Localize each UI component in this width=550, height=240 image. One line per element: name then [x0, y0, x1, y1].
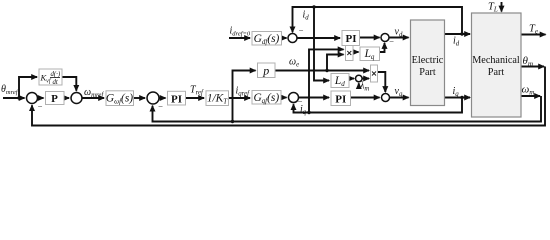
svg-text:Part: Part [488, 67, 505, 78]
svg-text:Gdf(s): Gdf(s) [254, 33, 280, 46]
svg-text:−: − [38, 102, 43, 112]
svg-text:Electric: Electric [412, 55, 444, 66]
svg-text:PI: PI [346, 33, 357, 45]
svg-text:−: − [158, 101, 163, 111]
svg-text:θm: θm [523, 55, 534, 68]
svg-text:λm: λm [359, 81, 369, 93]
svg-text:id: id [303, 10, 310, 22]
svg-text:vq: vq [395, 86, 403, 98]
svg-text:Part: Part [419, 67, 436, 78]
svg-text:vd: vd [395, 27, 403, 39]
svg-text:iq: iq [453, 86, 460, 98]
svg-text:−: − [299, 26, 304, 36]
svg-text:θmref: θmref [1, 84, 19, 96]
svg-text:PI: PI [335, 94, 346, 106]
svg-text:idref=0: idref=0 [230, 26, 251, 38]
svg-text:Tref: Tref [190, 85, 204, 97]
svg-text:d(·): d(·) [51, 71, 61, 78]
svg-text:iqref: iqref [236, 86, 251, 98]
svg-text:p: p [262, 64, 269, 78]
svg-text:−: − [298, 97, 303, 107]
svg-text:ωe: ωe [289, 57, 299, 69]
svg-text:PI: PI [171, 93, 182, 105]
svg-text:Mechanical: Mechanical [472, 55, 520, 66]
svg-text:Gqf(s): Gqf(s) [253, 92, 279, 105]
svg-text:id: id [453, 36, 460, 48]
svg-text:Te: Te [529, 24, 538, 36]
svg-text:−: − [389, 37, 394, 47]
svg-text:P: P [51, 93, 58, 105]
svg-text:ωm: ωm [522, 84, 535, 97]
svg-text:ωmref: ωmref [84, 87, 104, 99]
svg-text:TL: TL [488, 2, 498, 14]
